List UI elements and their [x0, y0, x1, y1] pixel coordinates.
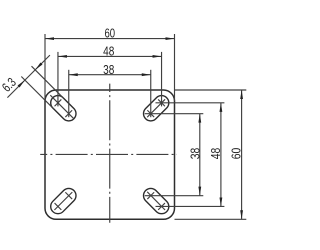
slot axis bottom-right — [147, 192, 165, 210]
arrow 60 top left — [45, 37, 54, 40]
slot hole top-right — [141, 93, 172, 124]
vertical centerline — [109, 84, 111, 223]
svg-text:6.3: 6.3 — [0, 75, 19, 95]
arrow 60 right down — [240, 210, 243, 219]
dim line 38 top — [69, 74, 151, 76]
dim line 6.3 diagonal — [7, 55, 50, 98]
arrow 6.3 lower (points NE) — [18, 80, 25, 87]
ext line right edge (60 top) — [174, 34, 176, 101]
ext line bottom edge (60 right) — [175, 218, 247, 220]
tick TL hole48 — [55, 99, 62, 106]
ext line 48 top right — [161, 52, 163, 107]
tick TL hole38 — [65, 110, 72, 117]
horizontal centerline — [40, 153, 177, 155]
slot hole bottom-right — [141, 185, 172, 216]
arrow 48 right down — [220, 197, 223, 206]
dim line 60 right — [241, 90, 243, 219]
ext line 48 right lower — [156, 205, 225, 207]
svg-text:48: 48 — [208, 148, 223, 160]
dim line 48 right — [220, 103, 222, 207]
ext line 48 top left — [57, 52, 59, 107]
arrow 48 top right — [153, 55, 162, 58]
tick BL hole38 — [65, 192, 72, 199]
slot axis top-left — [50, 95, 74, 119]
svg-text:48: 48 — [103, 43, 114, 58]
svg-text:38: 38 — [103, 62, 114, 77]
ext line 38 right lower — [145, 195, 204, 197]
arrow 38 top right — [142, 73, 151, 76]
tick BR hole38 — [147, 192, 154, 199]
tick TR hole38 — [147, 110, 154, 117]
arrow 48 top left — [58, 55, 67, 58]
ext line 38 top right — [150, 70, 152, 117]
ext line slot tangent SW (6.3) — [21, 77, 54, 110]
arrow 60 top right — [166, 37, 175, 40]
ext line 38 top left — [68, 70, 70, 117]
svg-text:60: 60 — [105, 25, 116, 40]
slot axis top-right — [147, 99, 165, 117]
svg-text:38: 38 — [188, 148, 203, 160]
arrow 38 right up — [198, 114, 201, 123]
tick TR hole48 — [158, 99, 165, 106]
ext line top edge (60 right) — [175, 89, 247, 91]
ext line 38 right upper — [145, 113, 204, 115]
slot hole top-left — [48, 93, 79, 124]
arrow 38 top left — [69, 73, 78, 76]
dim line 38 right — [199, 114, 201, 196]
arrow 38 right down — [198, 187, 201, 196]
arrow 60 right up — [240, 90, 243, 99]
tick BL hole48 — [55, 203, 62, 210]
dim line 60 top — [45, 38, 175, 40]
ext line 48 right upper — [156, 102, 225, 104]
arrow 48 right up — [220, 103, 223, 112]
ext line slot tangent NE (6.3) — [32, 66, 64, 98]
slot axis bottom-left — [54, 192, 72, 210]
dim line 48 top — [58, 55, 162, 57]
ext line left edge (60 top) — [44, 34, 46, 101]
svg-text:60: 60 — [229, 148, 244, 160]
slot hole bottom-left — [48, 185, 79, 216]
arrow 6.3 upper (points SW) — [35, 63, 42, 70]
tick BR hole48 — [158, 203, 165, 210]
plate outline — [45, 90, 175, 219]
